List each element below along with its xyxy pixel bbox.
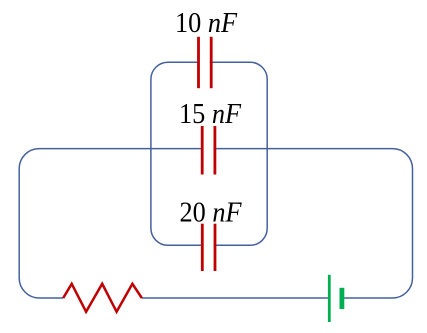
capacitor C2 (15 nF) xyxy=(202,126,215,175)
capacitor C1 (10 nF) xyxy=(199,37,212,88)
wire: inner loop (series capacitor branch) xyxy=(151,62,267,245)
svg-text:10 nF: 10 nF xyxy=(175,7,237,39)
resistor R1 xyxy=(63,284,142,312)
svg-text:20 nF: 20 nF xyxy=(180,197,242,229)
wire: outer loop xyxy=(19,149,412,298)
capacitor C3 (20 nF) xyxy=(202,224,215,271)
svg-text:15 nF: 15 nF xyxy=(179,98,241,130)
battery V1 xyxy=(328,275,344,322)
